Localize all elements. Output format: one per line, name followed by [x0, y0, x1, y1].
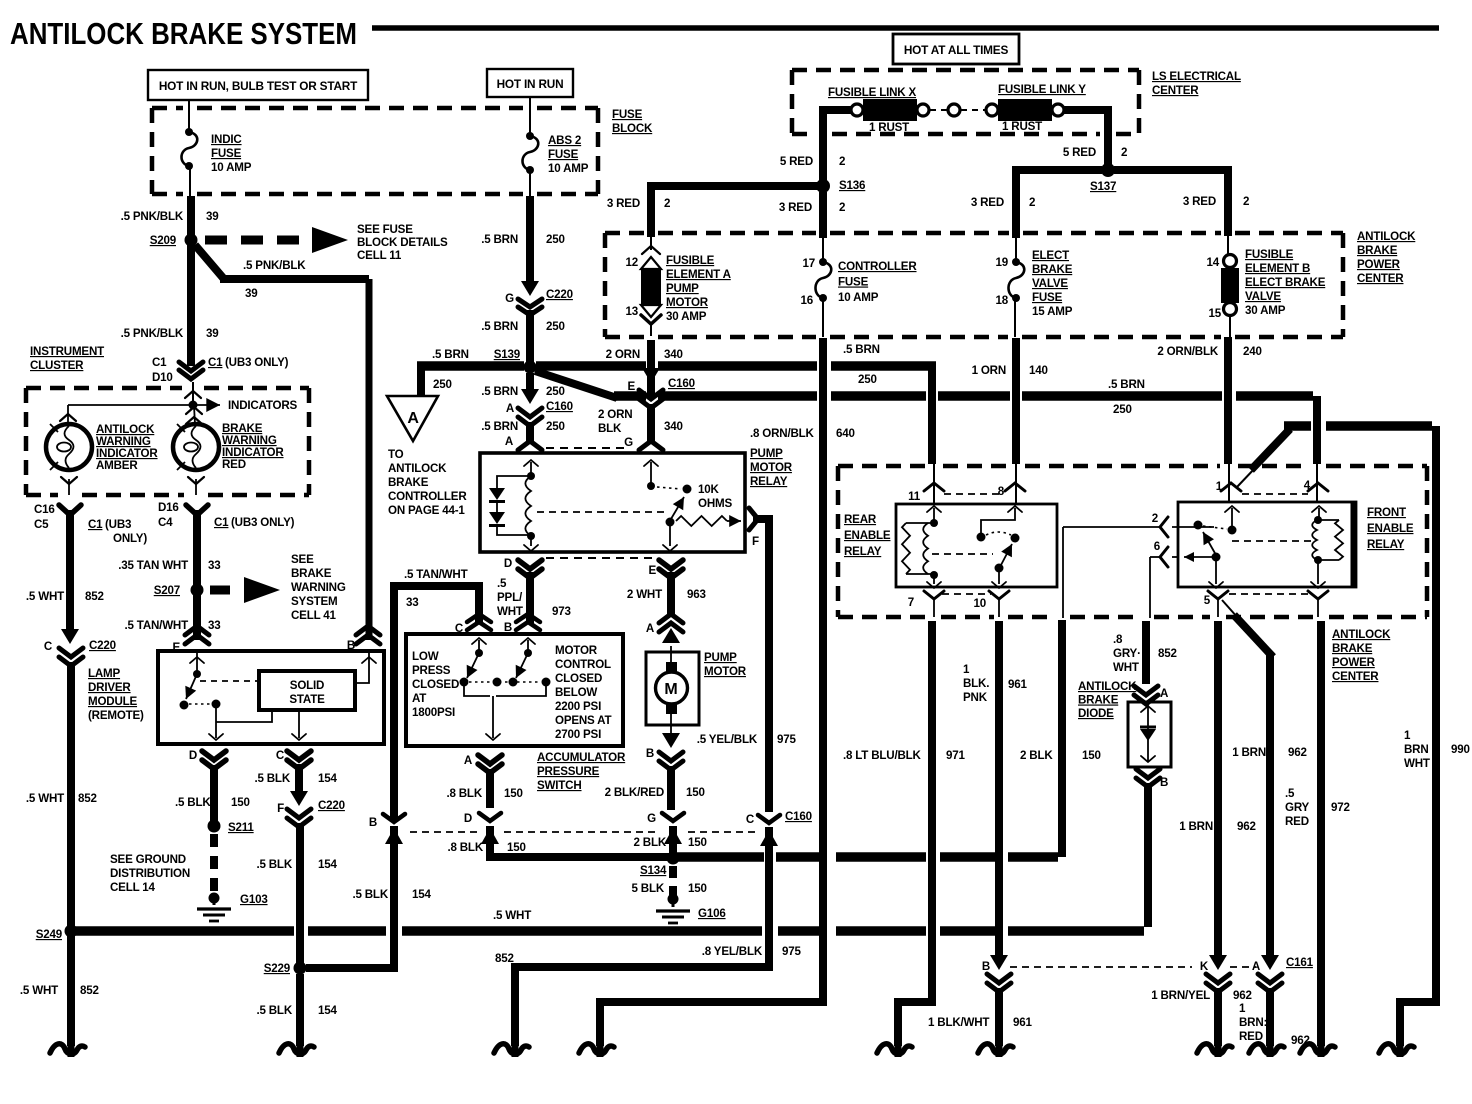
wire: S209 branch to lamp driver module pin B (.5 PNK/BLK 39) [195, 245, 224, 279]
front relay pin 2 lead [1184, 552, 1194, 562]
svg-text:.5 BLK: .5 BLK [254, 772, 290, 785]
svg-text:C4: C4 [158, 516, 173, 529]
svg-text:REAR: REAR [844, 513, 877, 526]
wire: bus elbow down to front relay pin 4 [1313, 396, 1321, 464]
wire: fusible element A to C160-E (2 ORN 340) [647, 340, 655, 396]
svg-text:G: G [624, 436, 633, 449]
svg-text:250: 250 [858, 373, 877, 386]
svg-text:D10: D10 [152, 371, 173, 384]
svg-text:OPENS AT: OPENS AT [555, 714, 611, 727]
antilock brake power center dashed box [605, 231, 644, 236]
fusible element B (elect brake valve 30 amp) [1227, 236, 1229, 255]
svg-text:G103: G103 [240, 893, 268, 906]
pump motor relay box [480, 453, 745, 552]
svg-text:3 RED: 3 RED [1183, 195, 1216, 208]
10K OHMS resistor to pin F [676, 516, 727, 526]
svg-text:2 ORN: 2 ORN [598, 408, 632, 421]
svg-text:963: 963 [687, 588, 706, 601]
svg-text:POWER: POWER [1332, 656, 1376, 669]
svg-text:5 RED: 5 RED [780, 155, 813, 168]
wire: rear relay pin 7 down (.8 LT BLU/BLK 971) [898, 621, 932, 1046]
svg-text:WHT: WHT [497, 605, 523, 618]
svg-text:FUSIBLE LINK Y: FUSIBLE LINK Y [998, 83, 1086, 96]
wire: front relay pin 2 riser [1058, 620, 1066, 857]
wire: pin D to S211 (.5 BLK 150) [210, 765, 218, 822]
svg-text:MOTOR: MOTOR [704, 665, 747, 678]
svg-text:BLOCK: BLOCK [612, 122, 653, 135]
svg-text:DRIVER: DRIVER [88, 681, 131, 694]
svg-text:2 BLK: 2 BLK [1020, 749, 1053, 762]
wire: C220-G to S139 (.5 BRN 250) [526, 310, 534, 363]
svg-text:S136: S136 [839, 179, 866, 192]
wire: fusible element B to front relay pin 1 (2 ORN/BLK 240) [1224, 337, 1232, 464]
svg-text:ELEMENT A: ELEMENT A [666, 268, 732, 281]
svg-text:S211: S211 [228, 821, 254, 834]
wire: S137 to elect brake valve fuse (3 RED 2) [1016, 170, 1102, 238]
svg-text:CENTER: CENTER [1152, 84, 1199, 97]
rear relay coil branch [927, 506, 941, 512]
svg-text:.5 BLK: .5 BLK [175, 796, 211, 809]
svg-text:(UB3 ONLY): (UB3 ONLY) [231, 516, 295, 529]
svg-text:.5 BRN: .5 BRN [481, 320, 518, 333]
svg-text:BLK.: BLK. [963, 677, 989, 690]
lamp driver module pin B internal lead [362, 657, 376, 663]
svg-text:M: M [664, 681, 677, 698]
front relay switch branch (pin 1) [1225, 506, 1239, 512]
svg-text:852: 852 [78, 792, 97, 805]
wire: pin A down (.8 BLK 150) [486, 769, 494, 808]
svg-text:CLUSTER: CLUSTER [30, 359, 84, 372]
relay compartment dashed box [838, 464, 925, 469]
svg-text:A: A [1252, 960, 1261, 973]
svg-text:LOW: LOW [412, 650, 439, 663]
wire: INDIC fuse to S209 (.5 PNK/BLK 39) [189, 166, 191, 198]
svg-text:S229: S229 [264, 962, 291, 975]
svg-text:S134: S134 [640, 864, 667, 877]
wire: C160-G to S134 (2 BLK 150) [669, 826, 677, 854]
wire below amber lamp [61, 477, 77, 484]
svg-text:6: 6 [1154, 540, 1161, 553]
svg-text:39: 39 [245, 287, 258, 300]
svg-text:1 ORN: 1 ORN [972, 364, 1006, 377]
wire: front relay pin 1 diagonal to 1 BRN WHT 990 [1237, 467, 1256, 487]
wire to brake warning lamp [194, 406, 195, 424]
hook: wire end 961 [996, 1038, 1003, 1057]
svg-text:1800PSI: 1800PSI [412, 706, 455, 719]
hook: wire end 962 left [1215, 1038, 1222, 1057]
svg-text:CLOSED: CLOSED [555, 672, 602, 685]
svg-text:ANTILOCK: ANTILOCK [1078, 680, 1137, 693]
wire: fuse block to C220-G (.5 BRN 250) [526, 196, 534, 288]
svg-text:30 AMP: 30 AMP [1245, 304, 1286, 317]
svg-text:ON PAGE 44-1: ON PAGE 44-1 [388, 504, 465, 517]
svg-text:PRESSURE: PRESSURE [537, 765, 600, 778]
svg-text:C1: C1 [214, 516, 229, 529]
wire: C160-E to pump motor relay pin G (340) [647, 404, 655, 442]
svg-text:2: 2 [1152, 512, 1158, 525]
svg-text:240: 240 [1243, 345, 1262, 358]
bus: 2 BLK 150 (S134 to front relay pin 2) [677, 852, 764, 862]
svg-text:340: 340 [664, 420, 683, 433]
wire: HOT IN RUN box to ABS 2 fuse [529, 97, 531, 136]
svg-text:5: 5 [1204, 594, 1211, 607]
svg-text:961: 961 [1008, 678, 1027, 691]
front relay coil branch (pin 4) [1312, 506, 1326, 512]
lamp: antilock warning indicator amber [46, 424, 92, 470]
svg-text:250: 250 [546, 320, 565, 333]
svg-text:CENTER: CENTER [1357, 272, 1404, 285]
svg-text:150: 150 [231, 796, 250, 809]
svg-text:A: A [505, 435, 514, 448]
fuse block dashed box [152, 106, 183, 111]
hook: wire end 990 [1397, 1038, 1404, 1057]
svg-text:1 BLK/WHT: 1 BLK/WHT [928, 1016, 989, 1029]
svg-text:RED: RED [222, 458, 246, 471]
svg-text:2: 2 [1121, 146, 1127, 159]
lamp driver module internals: switch [190, 657, 204, 663]
splice S207 [191, 584, 204, 597]
dashed arrow: SEE FUSE BLOCK DETAILS CELL 11 [205, 236, 310, 245]
svg-text:C160: C160 [785, 810, 812, 823]
svg-text:DISTRIBUTION: DISTRIBUTION [110, 867, 190, 880]
svg-text:.5 BLK: .5 BLK [256, 858, 292, 871]
splice S136 [816, 179, 830, 193]
svg-text:DIODE: DIODE [1078, 707, 1114, 720]
hook: wire end 640 [597, 1038, 604, 1057]
svg-text:140: 140 [1029, 364, 1048, 377]
svg-text:SEE: SEE [291, 553, 314, 566]
wire: motor B to C160-G (2 BLK/RED 150) [667, 766, 675, 810]
svg-text:973: 973 [552, 605, 571, 618]
svg-text:BRAKE: BRAKE [1078, 694, 1119, 707]
wire: front relay pin 5 diagonal branch (1 BRN 962) [1222, 600, 1238, 618]
svg-text:S209: S209 [150, 234, 177, 247]
svg-text:INDICATORS: INDICATORS [228, 399, 298, 412]
svg-text:1 BRN: 1 BRN [1179, 820, 1213, 833]
svg-text:154: 154 [318, 772, 337, 785]
svg-text:C1: C1 [208, 356, 223, 369]
svg-text:PUMP: PUMP [704, 651, 737, 664]
svg-text:LAMP: LAMP [88, 667, 121, 680]
svg-text:ENABLE: ENABLE [1367, 522, 1414, 535]
lamp driver module box [158, 651, 384, 744]
svg-text:A: A [646, 622, 655, 635]
bus: .5 WHT 852 (S249 to antilock brake diode B) [74, 926, 294, 936]
indicators arrow [68, 404, 220, 406]
svg-text:FUSE: FUSE [838, 276, 869, 289]
svg-text:(REMOTE): (REMOTE) [88, 709, 144, 722]
svg-text:1: 1 [963, 663, 970, 676]
svg-text:15 AMP: 15 AMP [1032, 305, 1073, 318]
svg-text:33: 33 [208, 619, 221, 632]
LS electrical center dashed box [792, 68, 1139, 73]
wire: C160-D elbow to S134 (2 BLK bus) [490, 826, 669, 857]
svg-text:SWITCH: SWITCH [537, 779, 582, 792]
svg-text:GRY: GRY [1285, 801, 1310, 814]
svg-text:39: 39 [206, 210, 219, 223]
wire: HOT IN RUN BULB TEST box to INDIC fuse [188, 100, 190, 132]
svg-text:.8 BLK: .8 BLK [447, 841, 483, 854]
svg-text:LS ELECTRICAL: LS ELECTRICAL [1152, 70, 1241, 83]
svg-text:3 RED: 3 RED [779, 201, 812, 214]
hook: wire end 852 branch [512, 1038, 519, 1057]
wire: cluster C16 down (.5 WHT 852) [66, 510, 74, 632]
bus: S139 to rear enable relay pin 11 (.5 BRN 250) [417, 361, 524, 371]
ground G103 [213, 900, 216, 905]
svg-text:852: 852 [495, 952, 514, 965]
wire: S136 down to controller fuse (3 RED 2) [819, 192, 827, 238]
splice S209 [185, 234, 198, 247]
wire: C160-A to pump motor relay pin A (.5 BRN 250) [526, 422, 534, 442]
svg-text:.5 TAN/WHT: .5 TAN/WHT [404, 568, 468, 581]
svg-text:250: 250 [546, 420, 565, 433]
wire: pin F to C160-C (.5 YEL/BLK 975) [753, 519, 769, 812]
svg-text:2: 2 [839, 155, 845, 168]
svg-text:TO: TO [388, 448, 404, 461]
splice S139 [524, 361, 537, 374]
svg-text:150: 150 [686, 786, 705, 799]
svg-text:33: 33 [208, 559, 221, 572]
pump motor relay coil branch (pin A) [524, 460, 538, 466]
svg-text:ANTILOCK: ANTILOCK [388, 462, 447, 475]
svg-text:.5 WHT: .5 WHT [26, 590, 64, 603]
svg-text:ABS 2: ABS 2 [548, 134, 581, 147]
svg-text:G106: G106 [698, 907, 726, 920]
wire: bus1 elbow down to rear relay pin 11 (.5 BRN) [928, 366, 936, 464]
svg-text:C160: C160 [668, 377, 695, 390]
svg-text:FRONT: FRONT [1367, 506, 1406, 519]
svg-text:BLK: BLK [598, 422, 622, 435]
splice S249 [65, 925, 78, 938]
svg-text:FUSE: FUSE [612, 108, 643, 121]
splice S229 [294, 962, 307, 975]
svg-text:C1: C1 [88, 518, 103, 531]
wire pivot to pin E [669, 524, 671, 546]
svg-text:962: 962 [1233, 989, 1252, 1002]
wire: S207 branch to pressure switch pin C (.5 TAN/WHT 33) [394, 586, 479, 822]
rear enable relay box [896, 504, 1057, 587]
svg-text:.5: .5 [1285, 787, 1295, 800]
svg-text:MOTOR: MOTOR [666, 296, 709, 309]
ground G106 [672, 902, 675, 907]
connector: front relay pin 5 [1208, 591, 1228, 599]
svg-text:16: 16 [801, 294, 814, 307]
svg-text:154: 154 [412, 888, 431, 901]
label box: HOT IN RUN, BULB TEST OR START [148, 70, 368, 100]
pump motor box [646, 652, 699, 725]
svg-text:154: 154 [318, 858, 337, 871]
svg-text:FUSIBLE: FUSIBLE [666, 254, 715, 267]
svg-text:17: 17 [803, 257, 816, 270]
connector D16/C4 below cluster [186, 505, 208, 515]
svg-text:962: 962 [1288, 746, 1307, 759]
svg-text:S207: S207 [154, 584, 180, 597]
svg-text:5 RED: 5 RED [1063, 146, 1096, 159]
svg-text:WARNING: WARNING [291, 581, 346, 594]
svg-text:2200 PSI: 2200 PSI [555, 700, 601, 713]
svg-text:BRAKE: BRAKE [291, 567, 332, 580]
connector: rear relay pin 7 [924, 591, 944, 599]
svg-text:.5 WHT: .5 WHT [493, 909, 531, 922]
svg-text:SEE FUSE: SEE FUSE [357, 223, 413, 236]
svg-text:154: 154 [318, 1004, 337, 1017]
svg-text:11: 11 [908, 490, 921, 503]
svg-text:.5 PNK/BLK: .5 PNK/BLK [243, 259, 306, 272]
svg-text:G: G [647, 812, 656, 825]
svg-text:FUSIBLE LINK X: FUSIBLE LINK X [828, 86, 916, 99]
svg-text:S249: S249 [36, 928, 63, 941]
svg-text:C: C [44, 640, 53, 653]
bus: .5 BRN 250 (S139 to front relay pin 4) [614, 391, 646, 401]
svg-text:D16: D16 [158, 501, 179, 514]
wire: controller fuse down (.8 ORN/BLK 640) [600, 338, 823, 1046]
svg-text:ELECT: ELECT [1032, 249, 1069, 262]
svg-text:PRESS: PRESS [412, 664, 451, 677]
svg-text:10 AMP: 10 AMP [211, 161, 252, 174]
svg-text:D: D [189, 749, 197, 762]
svg-text:BRAKE: BRAKE [388, 476, 429, 489]
svg-text:MODULE: MODULE [88, 695, 138, 708]
svg-text:19: 19 [996, 256, 1009, 269]
svg-text:E: E [648, 564, 656, 577]
svg-text:.5 YEL/BLK: .5 YEL/BLK [697, 733, 758, 746]
svg-text:S139: S139 [494, 348, 521, 361]
svg-text:2 ORN/BLK: 2 ORN/BLK [1157, 345, 1219, 358]
svg-text:14: 14 [1207, 256, 1220, 269]
svg-text:SEE GROUND: SEE GROUND [110, 853, 186, 866]
svg-text:A: A [1160, 687, 1169, 700]
svg-text:RELAY: RELAY [750, 475, 788, 488]
connector: antilock brake diode pin A [1134, 686, 1158, 695]
wire: pump relay pin D to pressure switch pin B (.5 PPL/WHT 973) [526, 572, 534, 624]
svg-text:POWER: POWER [1357, 258, 1401, 271]
svg-text:C: C [276, 749, 285, 762]
wire: front relay pin 5 down (1 BRN 962) [1214, 621, 1222, 957]
svg-text:ONLY): ONLY) [113, 532, 147, 545]
front enable relay box [1178, 502, 1356, 587]
svg-text:ELECT BRAKE: ELECT BRAKE [1245, 276, 1326, 289]
svg-text:PPL/: PPL/ [497, 591, 523, 604]
svg-text:2 BLK/RED: 2 BLK/RED [605, 786, 664, 799]
svg-text:ANTILOCK BRAKE SYSTEM: ANTILOCK BRAKE SYSTEM [10, 16, 357, 51]
dashed link pins A-G [546, 447, 630, 449]
svg-text:F: F [277, 802, 284, 815]
svg-text:852: 852 [1158, 647, 1177, 660]
dashed connector row C160 B-D-G-C [410, 831, 478, 833]
svg-text:971: 971 [946, 749, 965, 762]
hook: wire end 971 [895, 1038, 902, 1057]
dashed wire S211 to G103 [210, 834, 218, 896]
svg-text:FUSE: FUSE [1032, 291, 1063, 304]
svg-text:18: 18 [996, 294, 1009, 307]
connector: front relay lower right pin [1308, 591, 1328, 599]
svg-text:12: 12 [626, 256, 639, 269]
dashed wire S134 to G106 (5 BLK 150) [669, 866, 677, 896]
instrument cluster dashed box [26, 386, 182, 391]
svg-text:C160: C160 [546, 400, 573, 413]
splice S137 [1101, 163, 1115, 177]
svg-text:PUMP: PUMP [666, 282, 699, 295]
svg-text:FUSIBLE: FUSIBLE [1245, 248, 1294, 261]
svg-text:OHMS: OHMS [698, 497, 732, 510]
splice S134 [667, 852, 680, 865]
svg-text:FUSE: FUSE [548, 148, 579, 161]
svg-text:PNK: PNK [963, 691, 988, 704]
svg-text:K: K [1200, 960, 1209, 973]
solid state box [259, 671, 355, 710]
svg-text:CONTROLLER: CONTROLLER [838, 260, 917, 273]
svg-text:2: 2 [1243, 195, 1249, 208]
svg-text:1: 1 [1404, 729, 1411, 742]
svg-text:B: B [347, 639, 355, 652]
svg-text:30 AMP: 30 AMP [666, 310, 707, 323]
svg-text:1 RUST: 1 RUST [869, 121, 909, 134]
wire: front relay lower right pin down (.5 GRY RED 972) [1317, 621, 1325, 1046]
label box: HOT IN RUN [487, 69, 573, 97]
svg-text:CELL 11: CELL 11 [357, 249, 402, 262]
hook: wire end 154 [297, 1038, 304, 1057]
svg-text:ELEMENT B: ELEMENT B [1245, 262, 1310, 275]
svg-text:MOTOR: MOTOR [750, 461, 793, 474]
wire below C161-K (1 BRN/YEL 962) [1214, 988, 1222, 1046]
wire: ABS 2 fuse to C220 (.5 BRN 250) [529, 170, 531, 198]
svg-text:39: 39 [206, 327, 219, 340]
svg-text:C: C [746, 813, 755, 826]
svg-text:ENABLE: ENABLE [844, 529, 891, 542]
svg-text:.5 BLK: .5 BLK [256, 1004, 292, 1017]
connector: rear relay pin 10 [989, 591, 1009, 599]
svg-text:D: D [464, 812, 472, 825]
svg-text:C: C [455, 622, 464, 635]
svg-text:GRY·: GRY· [1113, 647, 1141, 660]
svg-text:AMBER: AMBER [96, 459, 138, 472]
svg-text:.5: .5 [497, 577, 507, 590]
svg-text:250: 250 [433, 378, 452, 391]
svg-text:150: 150 [688, 882, 707, 895]
svg-text:340: 340 [664, 348, 683, 361]
svg-text:ANTILOCK: ANTILOCK [1357, 230, 1416, 243]
svg-text:D: D [504, 557, 512, 570]
wire: S229 to C160-B riser [306, 826, 394, 968]
svg-text:975: 975 [782, 945, 801, 958]
wire: cluster D16 down to S207 (.35 TAN WHT 33) [193, 510, 201, 640]
svg-text:(UB3: (UB3 [105, 518, 132, 531]
svg-text:.5 PNK/BLK: .5 PNK/BLK [121, 210, 184, 223]
wire below red lamp [188, 477, 204, 484]
svg-text:852: 852 [85, 590, 104, 603]
svg-text:33: 33 [406, 596, 419, 609]
wire: S137 to fusible element B (3 RED 2) [1114, 170, 1228, 236]
svg-text:.8 BLK: .8 BLK [446, 787, 482, 800]
wire below S229 (.5 BLK 154) [296, 974, 304, 1046]
mechanical link dashes [537, 511, 664, 513]
svg-text:.8 LT BLU/BLK: .8 LT BLU/BLK [843, 749, 922, 762]
pressure switch contacts [460, 678, 469, 687]
svg-text:C161: C161 [1286, 956, 1314, 969]
svg-text:HOT IN RUN, BULB TEST OR START: HOT IN RUN, BULB TEST OR START [159, 79, 358, 93]
wire: bus elbow down to page connector A [417, 366, 425, 395]
svg-text:PUMP: PUMP [750, 447, 783, 460]
svg-text:.5 BRN: .5 BRN [481, 233, 518, 246]
lamp: brake warning indicator red [173, 424, 219, 470]
svg-text:2: 2 [839, 201, 845, 214]
wire: diode B to .5 WHT bus [1144, 783, 1152, 927]
svg-text:150: 150 [504, 787, 523, 800]
svg-text:.5 WHT: .5 WHT [20, 984, 58, 997]
svg-text:WHT: WHT [1404, 757, 1430, 770]
svg-text:.5 WHT: .5 WHT [26, 792, 64, 805]
svg-text:.5 PNK/BLK: .5 PNK/BLK [121, 327, 184, 340]
